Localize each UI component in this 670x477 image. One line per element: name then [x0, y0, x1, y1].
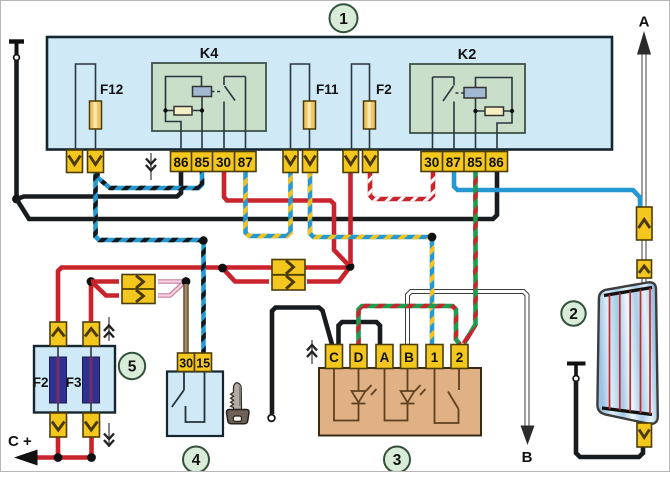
svg-text:30: 30 — [424, 155, 439, 170]
switch cell A-B indicator circuit — [385, 369, 408, 421]
switch cell C-D indicator circuit — [334, 369, 359, 421]
relay K2 switch contacts — [433, 77, 465, 133]
label F2 (block 5) — [33, 375, 49, 390]
terminal circle on mast — [14, 55, 20, 61]
svg-text:30: 30 — [216, 155, 231, 170]
relay K4 coil loop wiring — [166, 77, 203, 132]
wire blue K2 pin 87 to element connector — [454, 172, 640, 207]
svg-text:1: 1 — [339, 11, 348, 28]
svg-text:F2: F2 — [33, 375, 49, 390]
label F12 — [100, 82, 123, 97]
element heater lines — [610, 288, 651, 414]
node: red bus split left — [218, 264, 227, 273]
connector above block5 F3 — [83, 322, 100, 346]
relay K2 pin row 30 87 85 86 — [421, 152, 508, 172]
label B (net arrow) — [522, 449, 533, 466]
wire green-red switch pin D to pin 2 — [359, 306, 461, 345]
svg-text:30: 30 — [179, 357, 193, 371]
element upper connector — [637, 207, 653, 240]
switch pin 1 — [426, 345, 443, 369]
wire tan junction to ignition pin 30 — [183, 284, 188, 353]
relay K2 resistor wires — [473, 109, 514, 113]
label F11 — [316, 82, 339, 97]
wire white connector to element top — [642, 278, 647, 284]
wire blue-black K4 pin 85 to connector — [98, 172, 203, 188]
svg-text:85: 85 — [194, 155, 210, 170]
connector above block5 F2 — [50, 322, 67, 346]
wire red main bus through connector to junction — [225, 265, 348, 270]
wire white switch pin B to arrow B — [408, 292, 528, 429]
ignition pin 30 — [178, 353, 195, 372]
node: blue-black corner junction — [199, 236, 207, 244]
LED symbol cell A-B — [401, 385, 426, 404]
terminal circle pin C ground — [268, 415, 275, 422]
label C + battery — [8, 433, 32, 450]
svg-text:D: D — [354, 350, 364, 365]
block 5 fuse F2 wire — [57, 347, 59, 412]
wire red F2 connector to junction — [348, 172, 353, 264]
ignition switch contacts — [172, 372, 205, 423]
fuse F11 body — [304, 101, 316, 129]
node: pink pair junction — [182, 277, 191, 286]
wire blue-yellow connector to switch pin 1 — [310, 172, 432, 345]
fuse F12 body — [90, 101, 102, 129]
switch pin C — [326, 345, 343, 369]
block 5 box — [34, 346, 115, 413]
relay K2 pin stubs to block edge — [433, 133, 498, 150]
svg-text:2: 2 — [456, 350, 464, 365]
svg-text:A: A — [380, 350, 390, 365]
ground mast symbol near element — [567, 364, 586, 376]
relay K4 resistor wires — [163, 108, 204, 112]
arrow B head — [521, 426, 535, 446]
connector pair A on pink pair — [122, 275, 155, 304]
svg-text:15: 15 — [196, 357, 210, 371]
wire red K4 pin 30 to junction — [224, 172, 348, 265]
svg-text:2: 2 — [569, 306, 578, 323]
label F3 (block 5) — [66, 375, 82, 390]
fuse F11 loop — [291, 64, 310, 150]
wire white connector to connector at element — [642, 240, 647, 260]
relay K2 resistor — [485, 107, 504, 116]
relay K4 box — [152, 63, 266, 131]
switch pin A — [376, 345, 393, 369]
svg-text:1: 1 — [431, 350, 439, 365]
ignition pin 15 — [195, 353, 212, 372]
ground chevron upward near block5 top — [104, 317, 114, 341]
LED symbol cell C-D — [352, 385, 377, 404]
svg-text:87: 87 — [238, 155, 253, 170]
svg-text:F12: F12 — [100, 82, 123, 97]
connector below F11 right — [303, 150, 318, 173]
label K4 — [200, 46, 219, 62]
wire blue-black connector to ignition pin 15 — [96, 172, 204, 353]
callout circle 2 — [561, 301, 585, 325]
callout circle 4 — [183, 447, 209, 473]
svg-text:87: 87 — [446, 155, 461, 170]
wire black jumper pin C to pin A — [339, 322, 381, 345]
fuse F2 loop — [352, 64, 370, 150]
element bottom connector — [637, 423, 652, 447]
block 5 fuse F3 body — [83, 357, 100, 403]
label F2 (block fuse) — [376, 82, 392, 97]
label K2 — [458, 47, 477, 63]
connector below F2 left — [343, 150, 359, 173]
element lower connector at top of glass — [637, 260, 652, 278]
switch pin B — [401, 345, 418, 369]
svg-text:3: 3 — [393, 452, 402, 469]
connector below F12 left — [67, 150, 83, 173]
switch pin D — [350, 345, 367, 369]
ignition key icon — [227, 383, 250, 424]
wire blue-yellow K4 pin 87 to connector — [246, 172, 291, 236]
svg-text:F3: F3 — [66, 375, 82, 390]
ground chevron symbol below block — [146, 153, 156, 180]
relay K4 coil — [193, 87, 212, 97]
ignition switch box (component 4) — [167, 372, 223, 437]
wire black junction to K4 pin 86 — [17, 172, 182, 199]
svg-text:B: B — [404, 350, 414, 365]
element bottom bus bar — [602, 408, 652, 415]
fuse F12 loop — [76, 64, 96, 150]
connector below F12 right — [88, 150, 104, 173]
node: C+ junctions — [54, 453, 96, 462]
connector below block5 F2 — [50, 413, 67, 437]
connector below F2 right — [363, 150, 379, 173]
switch cell 1-2 contact — [435, 369, 460, 423]
connector pair B on red bus — [272, 260, 305, 291]
fuse F2 body — [364, 101, 376, 129]
svg-text:85: 85 — [467, 155, 483, 170]
ground mast symbol top-left — [9, 42, 24, 55]
relay K4 pin stubs to block edge — [181, 131, 246, 150]
node: F3 junction — [87, 277, 96, 286]
wire red feed to fuse F2 of block 5 — [58, 268, 219, 323]
wire red block5 lower fuses to C+ bus — [58, 437, 92, 457]
connector below F11 left — [283, 150, 298, 173]
wire black mast down to junction — [14, 61, 19, 200]
node: blue-yellow junction — [428, 233, 437, 242]
ground chevron downward near block5 bottom — [104, 423, 114, 447]
relay K4 resistor — [174, 107, 192, 116]
callout circle 3 — [384, 447, 410, 473]
wire red pair lower branch through connector — [223, 268, 350, 282]
terminal circle element ground — [573, 376, 579, 382]
wire red C+ bus — [20, 455, 92, 460]
wire pink pair out of connector A — [158, 282, 183, 296]
svg-text:F2: F2 — [376, 82, 392, 97]
wire white arrow A shaft — [642, 52, 647, 207]
svg-text:A: A — [639, 14, 650, 31]
wire red F3 fuse riser — [89, 282, 94, 322]
svg-text:86: 86 — [489, 155, 505, 170]
ground chevron upward near switch pin C — [307, 340, 317, 364]
relay K2 box — [410, 64, 525, 133]
arrow A head — [637, 31, 651, 55]
callout circle 5 — [119, 353, 145, 379]
block 5 fuse F3 wire — [90, 347, 92, 412]
wire red pair into connector A — [91, 282, 119, 296]
label A (net arrow) — [639, 14, 650, 31]
wire black junction to K2 pin 86 — [17, 172, 498, 219]
svg-text:K4: K4 — [200, 46, 219, 62]
arrow C+ — [14, 450, 38, 466]
relay K2 coil loop wiring — [476, 78, 513, 134]
svg-text:K2: K2 — [458, 47, 477, 63]
callout circle 1 — [330, 4, 358, 32]
connector below block5 F3 — [83, 413, 100, 437]
svg-text:86: 86 — [173, 155, 189, 170]
mounting block (component 1) — [47, 37, 612, 150]
switch pin 2 — [451, 345, 468, 369]
svg-text:F11: F11 — [316, 82, 339, 97]
wire black switch pin C to body terminal — [272, 308, 332, 415]
block 5 fuse F2 body — [50, 357, 67, 403]
svg-text:5: 5 — [128, 359, 137, 376]
svg-text:B: B — [522, 449, 533, 466]
wire black element to body — [576, 382, 643, 458]
node: red bus junction right — [346, 262, 355, 271]
relay K4 switch contacts — [212, 77, 246, 132]
wire red-white connector to K2 pin 30 — [370, 172, 433, 199]
relay K2 coil — [464, 88, 486, 99]
svg-text:4: 4 — [192, 452, 201, 469]
element top bus bar — [604, 288, 652, 296]
heated window element (component 2) — [597, 282, 657, 424]
svg-text:C: C — [329, 350, 339, 365]
wire green-red K2 pin 85 to switch pin 2 — [464, 172, 476, 344]
svg-text:C +: C + — [8, 433, 32, 450]
relay K4 pin row 86 85 30 87 — [171, 152, 257, 172]
node: ground junction — [12, 195, 21, 204]
switch block (component 3) — [319, 368, 481, 436]
